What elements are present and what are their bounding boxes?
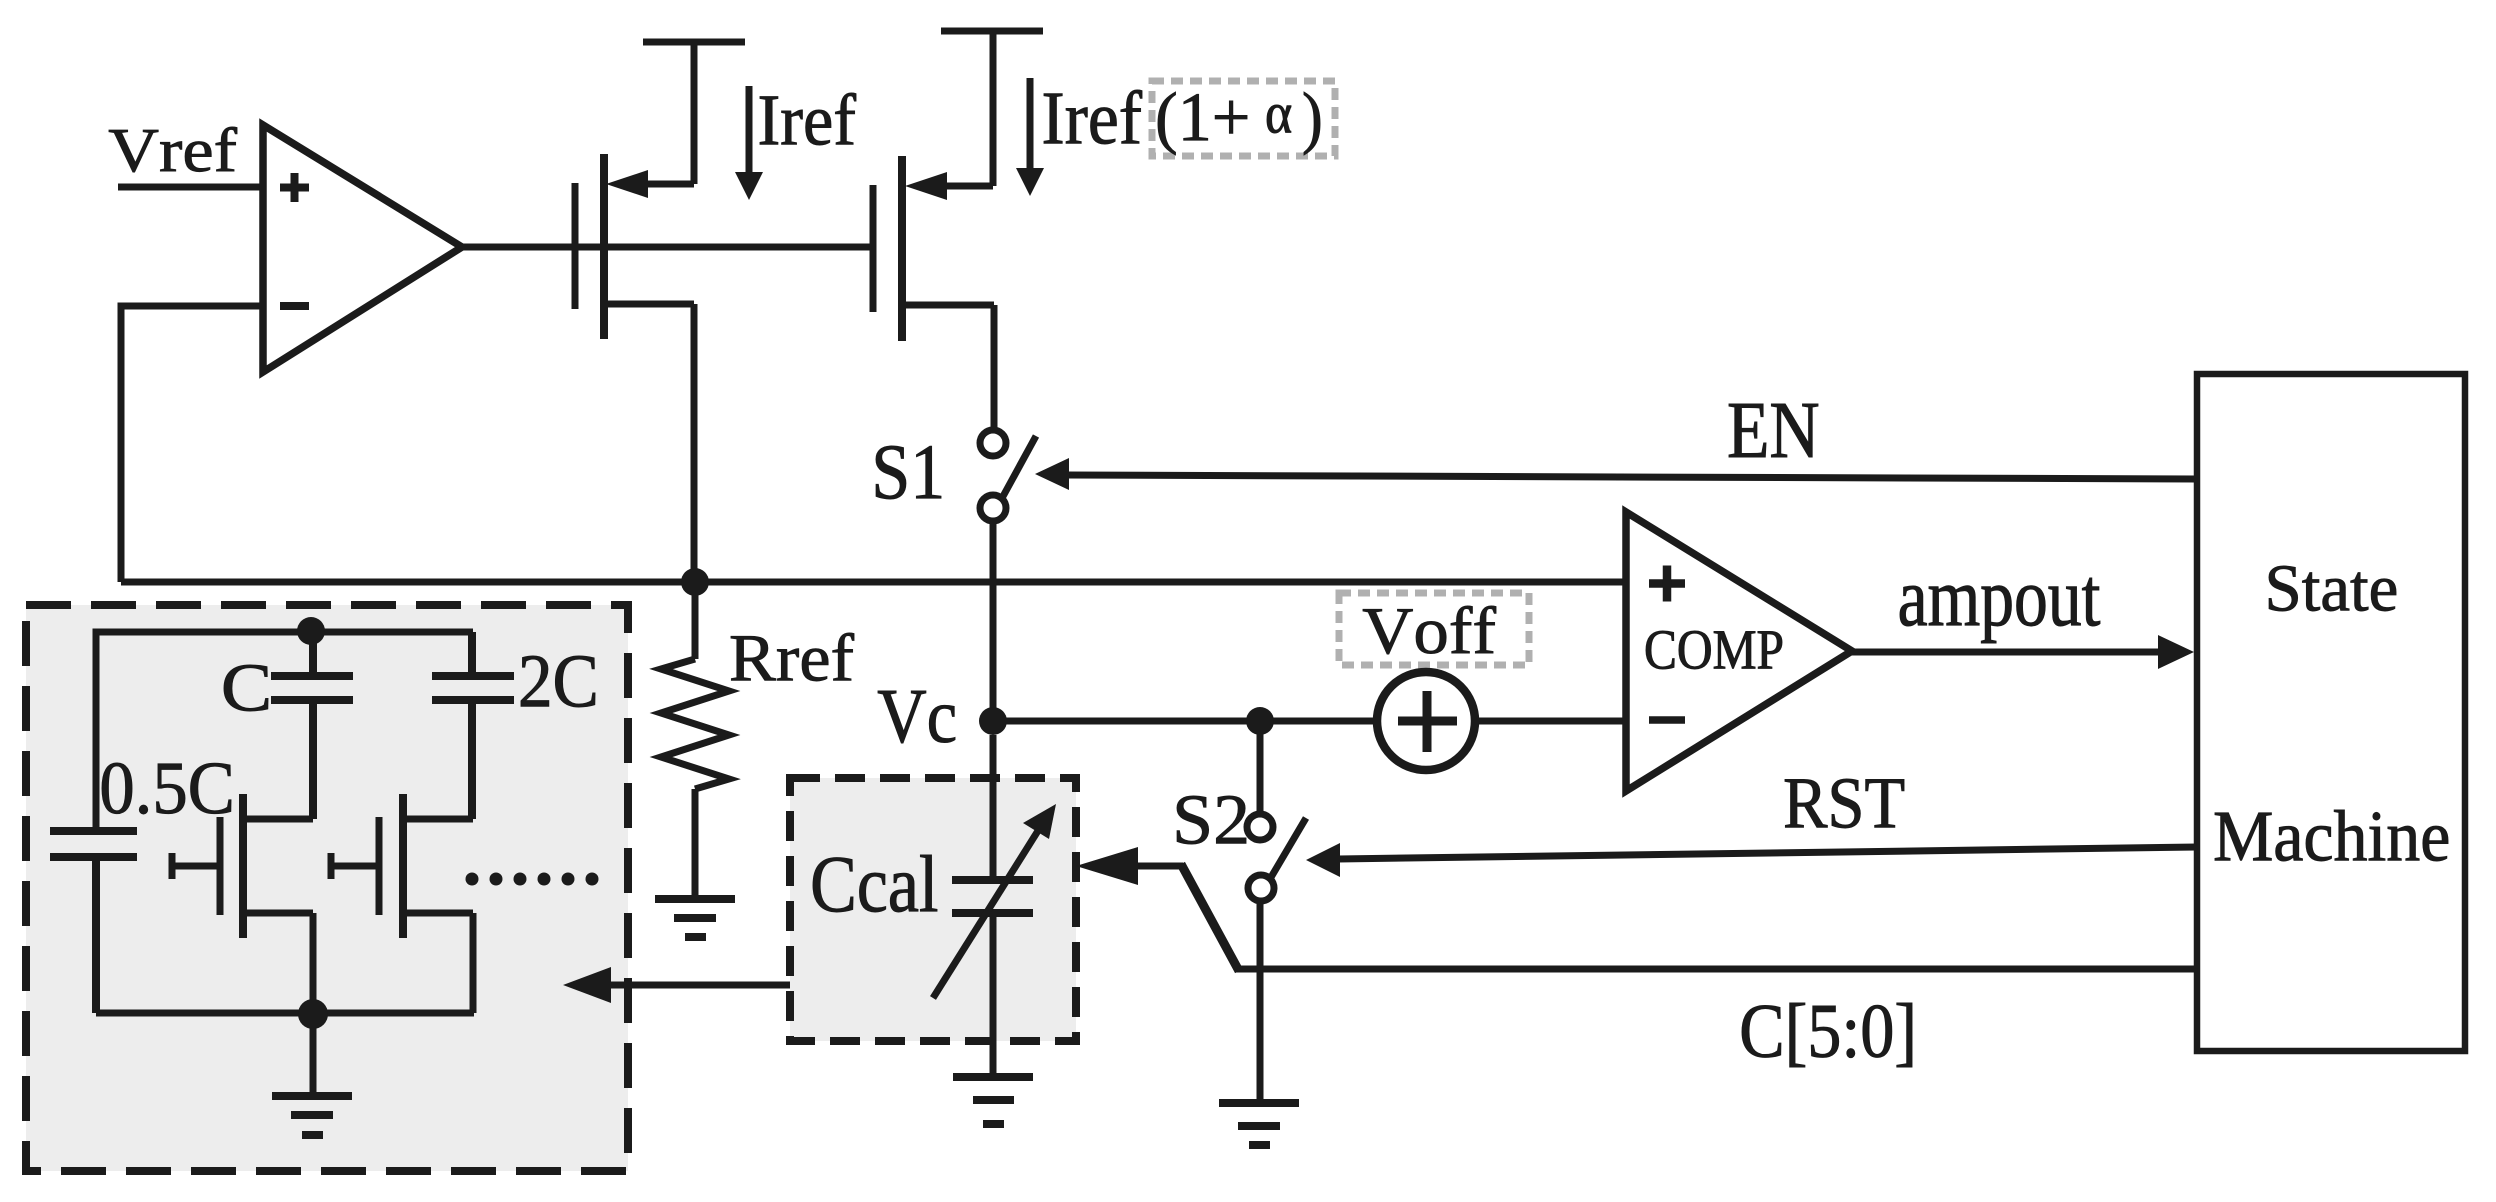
COMP plus marker xyxy=(1649,566,1685,602)
capacitor C xyxy=(271,631,353,819)
current arrow Iref xyxy=(735,86,763,200)
wire node to S2 xyxy=(1257,721,1264,814)
voltage source Voff xyxy=(1377,672,1475,770)
op-amp U1 xyxy=(263,125,462,372)
wire cap bank top rail xyxy=(96,632,473,829)
label closing paren xyxy=(1304,92,1320,155)
net label Vref xyxy=(109,127,237,172)
label S2 xyxy=(1177,796,1246,844)
label Iref xyxy=(760,93,856,145)
label (1+ xyxy=(1158,92,1247,155)
label Machine xyxy=(2215,810,2448,861)
supply rail of M1 xyxy=(643,39,745,46)
node top of cap bank xyxy=(297,617,325,645)
wire EN with arrowhead xyxy=(1035,458,2197,490)
supply rail of M2 xyxy=(941,28,1043,35)
label C[5:0] xyxy=(1742,1003,1912,1067)
junction node Vc branch to S2 xyxy=(1246,707,1274,735)
label Rref xyxy=(731,633,854,681)
dotted box around 1+alpha xyxy=(1152,81,1335,156)
label C xyxy=(224,665,268,711)
wire gate bus U1 output to M1 M2 gates xyxy=(462,244,873,251)
label 2C xyxy=(521,656,595,707)
wire S1 to Vc node xyxy=(990,521,997,721)
Ccal dashed box xyxy=(790,778,1076,1041)
label Ccal xyxy=(813,855,937,912)
label 0.5C xyxy=(102,763,231,814)
wire RST with arrowhead xyxy=(1306,843,2197,877)
transistor Q2 xyxy=(331,794,473,1013)
current arrow Iref(1+a) xyxy=(1016,78,1044,196)
op-amp U1 plus marker xyxy=(280,173,309,202)
node bottom of cap bank xyxy=(298,999,328,1029)
switch S1 xyxy=(980,430,1036,521)
wire C[5:0] with arrowhead into Ccal xyxy=(1076,847,2197,971)
switch S2 xyxy=(1247,814,1306,901)
label RST xyxy=(1785,779,1904,828)
ground of Rref xyxy=(655,899,735,937)
label EN xyxy=(1729,404,1818,457)
wire ampout with arrowhead xyxy=(1852,635,2194,669)
comparator COMP xyxy=(1626,512,1852,791)
label Vc xyxy=(878,691,955,743)
capacitor bank dashed box xyxy=(26,605,628,1171)
wire feedback U1 minus loop xyxy=(121,306,263,582)
ground of cap bank xyxy=(272,1014,352,1135)
transistor M2 PMOS current mirror xyxy=(873,31,994,430)
capacitor 0.5C xyxy=(50,831,137,1013)
capacitor Ccal variable xyxy=(933,735,1056,1077)
junction node main rail / M1 drain xyxy=(681,568,709,596)
wire main rail xyxy=(121,579,1626,586)
COMP minus marker xyxy=(1649,716,1685,724)
op-amp U1 minus marker xyxy=(280,302,309,310)
label Iref second xyxy=(1044,90,1142,144)
wire Vref to U1 plus input xyxy=(118,184,264,191)
dotted box around Voff xyxy=(1339,593,1529,665)
label alpha xyxy=(1267,105,1291,133)
ground of S2 xyxy=(1219,1103,1299,1145)
label Voff xyxy=(1363,606,1496,654)
label ampout xyxy=(1900,578,2100,643)
arrow C bus into cap bank xyxy=(563,967,790,1003)
wire Vc to Voff source xyxy=(993,718,1378,725)
label S1 xyxy=(876,446,941,499)
label COMP xyxy=(1646,631,1782,669)
transistor Q1 xyxy=(172,794,313,1013)
wire Voff to COMP minus input xyxy=(1474,718,1626,725)
label State xyxy=(2269,566,2396,611)
ellipsis dots xyxy=(466,873,599,886)
ground of Ccal xyxy=(953,1077,1033,1124)
State Machine box xyxy=(2197,374,2465,1051)
capacitor 2C xyxy=(432,632,514,819)
wire S2 to ground xyxy=(1257,901,1264,1103)
wire cap bank bottom rail xyxy=(96,1010,474,1017)
node Vc xyxy=(979,707,1007,735)
resistor Rref xyxy=(661,582,729,899)
transistor M1 PMOS current mirror xyxy=(575,42,694,582)
